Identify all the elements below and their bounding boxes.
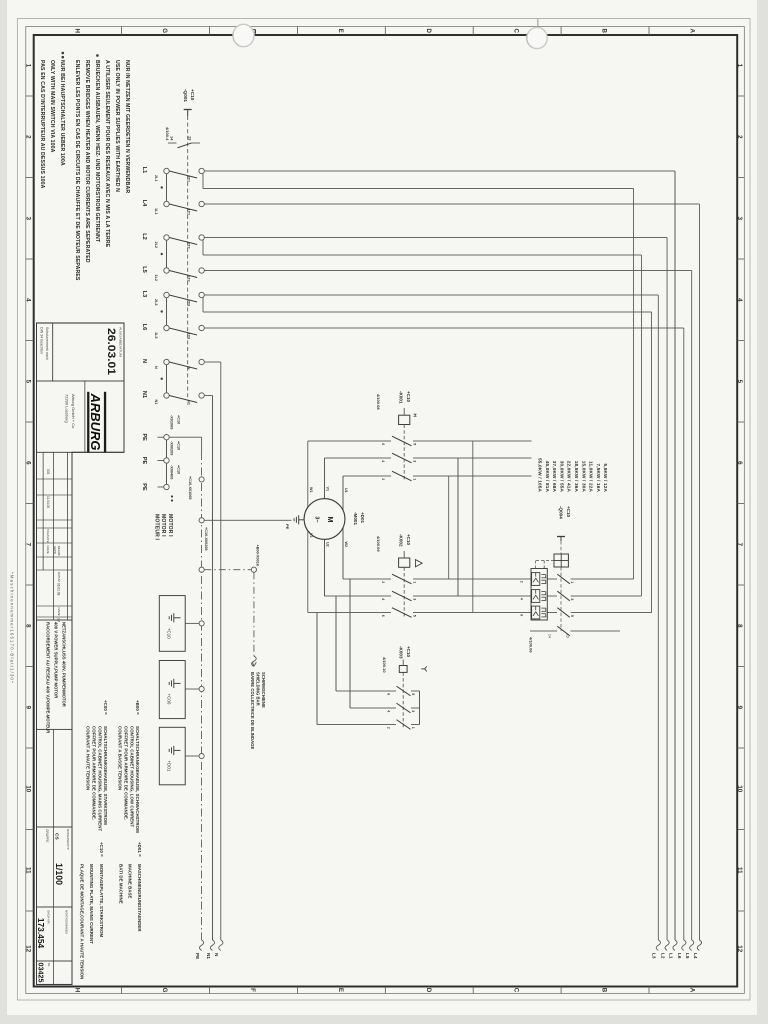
bridge bullet marker 3 xyxy=(161,310,163,312)
main switch Q001 handle xyxy=(184,110,192,117)
svg-text:1L2: 1L2 xyxy=(154,275,158,282)
svg-text:NUR BEI HAUPTSCHALTER UEBER 10: NUR BEI HAUPTSCHALTER UEBER 100A xyxy=(59,60,65,166)
svg-text:C: C xyxy=(513,28,520,33)
svg-text:MASCHINENTYP: MASCHINENTYP xyxy=(66,829,70,850)
svg-text:B: B xyxy=(601,28,608,33)
bridge between input terminals 2 xyxy=(166,240,168,268)
svg-text:PE: PE xyxy=(141,483,147,491)
svg-text:NAME: NAME xyxy=(46,546,50,554)
svg-text:11: 11 xyxy=(736,867,743,874)
svg-text:7,5KW / 16A: 7,5KW / 16A xyxy=(596,464,601,493)
svg-text:B: B xyxy=(601,988,608,993)
svg-text:* M a s c h i n e n n u m m e: * M a s c h i n e n n u m m e r 1 6 5 1 … xyxy=(10,572,15,683)
wire N1 to sheet 2 xyxy=(204,396,214,951)
pole L1 terminal labels xyxy=(154,175,191,182)
column ruler numbers 1-12 bottom edge xyxy=(25,64,32,953)
motor circuit ring middle xyxy=(325,458,459,596)
title block section dividers vertical xyxy=(37,381,125,961)
svg-text:2L3: 2L3 xyxy=(154,299,158,306)
svg-text:4/100.10: 4/100.10 xyxy=(382,657,387,673)
svg-text:CONTROL CABINET HOUSING, MAINS: CONTROL CABINET HOUSING, MAINS CURRENT xyxy=(97,726,102,832)
earth connection box +C00 xyxy=(159,661,204,719)
svg-text:-X00409: -X00409 xyxy=(170,465,174,479)
motor terminal labels left xyxy=(309,487,348,493)
switch pole L6 of Q001 xyxy=(164,325,205,335)
svg-text:13: 13 xyxy=(566,634,570,638)
wire N to sheet 2 xyxy=(204,362,223,950)
svg-text:NUR IN NETZEN MIT GEERDETEN N: NUR IN NETZEN MIT GEERDETEN N VERWENDBAR xyxy=(124,60,130,193)
svg-text:REMOVE BRIDGES WHEN HEATER AND: REMOVE BRIDGES WHEN HEATER AND MOTOR CUR… xyxy=(84,60,90,263)
svg-text:L1: L1 xyxy=(141,167,147,174)
svg-text:1: 1 xyxy=(25,64,32,68)
svg-text:173.454: 173.454 xyxy=(36,918,46,949)
svg-text:400 V POWER SUPPLY,PUMP MOTOR: 400 V POWER SUPPLY,PUMP MOTOR xyxy=(54,622,59,698)
svg-text:N1: N1 xyxy=(187,400,191,405)
svg-text:22,0KW / 41A: 22,0KW / 41A xyxy=(567,461,572,493)
svg-text:Arburg GmbH + Co: Arburg GmbH + Co xyxy=(71,394,76,429)
svg-text:+B00 =: +B00 = xyxy=(135,700,140,715)
title block field issue date 26.03.01 xyxy=(39,323,122,381)
title block middle divider xyxy=(52,729,54,984)
svg-text:-X01069: -X01069 xyxy=(170,415,174,429)
motor circuit ring outer xyxy=(308,441,473,613)
punch hole lower xyxy=(233,24,254,46)
svg-text:D: D xyxy=(425,988,432,993)
legend +C10 mounting plate xyxy=(79,842,104,979)
svg-text:F: F xyxy=(249,988,256,992)
svg-text:10: 10 xyxy=(736,785,743,792)
svg-text:1: 1 xyxy=(411,727,415,729)
svg-text:5: 5 xyxy=(570,615,574,617)
svg-text:2T3: 2T3 xyxy=(187,300,191,307)
svg-text:GEPR: GEPR xyxy=(53,546,57,554)
switch pole L3 of Q001 xyxy=(164,292,205,302)
svg-text:1T1: 1T1 xyxy=(187,209,191,216)
switch pole N1 of Q001 xyxy=(164,393,205,403)
svg-text:4: 4 xyxy=(387,710,391,712)
svg-text:3~: 3~ xyxy=(314,516,320,522)
svg-text:BATI DE MACHINE: BATI DE MACHINE xyxy=(119,864,124,904)
svg-text:9: 9 xyxy=(736,706,743,710)
title block group field 1/100 xyxy=(45,829,70,885)
svg-text:ENLEVER LES PONTS EN CAS DE CI: ENLEVER LES PONTS EN CAS DE CIRCUITS DE … xyxy=(74,60,80,281)
contactor K003 contact 5-6 xyxy=(336,596,415,696)
svg-text:8: 8 xyxy=(25,624,32,628)
svg-text:BARRE COLLECTRICE DE BLINDAGE: BARRE COLLECTRICE DE BLINDAGE xyxy=(250,672,255,749)
svg-text:5,5KW / 12A: 5,5KW / 12A xyxy=(603,464,608,493)
svg-text:2T2: 2T2 xyxy=(187,242,191,249)
pole L3 terminal labels xyxy=(154,299,191,306)
svg-text:10: 10 xyxy=(25,785,32,792)
svg-text:3: 3 xyxy=(25,217,32,221)
title block date and name grid xyxy=(37,452,73,622)
svg-text:N: N xyxy=(187,367,191,370)
note bullet double xyxy=(62,52,65,59)
svg-text:MACHINE BASE: MACHINE BASE xyxy=(127,864,132,899)
svg-text:5: 5 xyxy=(25,380,32,384)
column ruler ticks top edge xyxy=(737,96,744,911)
svg-text:-Q004: -Q004 xyxy=(559,506,564,519)
svg-text:4: 4 xyxy=(25,298,32,302)
svg-text:9: 9 xyxy=(25,706,32,710)
switch pole L1 of Q001 xyxy=(164,168,205,178)
note text: use only with earthed N xyxy=(104,60,130,248)
punch hole upper xyxy=(527,27,548,48)
svg-text:+C10: +C10 xyxy=(406,646,411,658)
svg-text:L2: L2 xyxy=(141,233,147,240)
star symbol xyxy=(421,666,427,671)
motor designator xyxy=(353,512,365,525)
svg-text:3: 3 xyxy=(736,217,743,221)
column ruler numbers 1-12 top edge xyxy=(736,64,743,953)
wire phase L2 to sheet 2 xyxy=(204,238,669,951)
svg-text:-M001: -M001 xyxy=(353,512,358,525)
pole N terminal labels xyxy=(154,366,191,370)
svg-text:3: 3 xyxy=(413,598,417,600)
svg-text:2T1: 2T1 xyxy=(187,176,191,183)
svg-text:1: 1 xyxy=(736,64,743,68)
svg-text:L5: L5 xyxy=(685,953,690,959)
svg-text:L3: L3 xyxy=(141,291,147,298)
svg-text:V1: V1 xyxy=(325,487,329,492)
svg-text:4/100.06: 4/100.06 xyxy=(529,637,534,653)
svg-text:C: C xyxy=(513,988,520,993)
svg-text:06.02.98: 06.02.98 xyxy=(56,583,60,596)
bridge bullet marker 2 xyxy=(161,253,163,255)
contactor K002 contact 1-2 xyxy=(343,574,532,584)
wire phase L4 to sheet 2 xyxy=(204,204,701,950)
fuse block of Q004 xyxy=(531,569,547,621)
svg-text:SCHALTSCHRANKGEHAEUSE, STARKST: SCHALTSCHRANKGEHAEUSE, STARKSTROM xyxy=(103,726,108,825)
switch pole L2 of Q001 xyxy=(164,235,205,245)
svg-text:55,0KW / 105A: 55,0KW / 105A xyxy=(538,458,543,492)
svg-text:SACH-NR.: SACH-NR. xyxy=(47,910,51,925)
svg-text:+C10: +C10 xyxy=(190,89,195,101)
svg-text:-X00209: -X00209 xyxy=(170,441,174,455)
row ruler ticks right edge xyxy=(122,987,649,994)
svg-text:2: 2 xyxy=(387,727,391,729)
svg-text:03425: 03425 xyxy=(36,963,45,983)
svg-text:2L1: 2L1 xyxy=(154,175,158,182)
svg-text:A: A xyxy=(689,28,696,33)
fuse switch Q004 blade 3 xyxy=(520,591,575,601)
svg-text:+C10: +C10 xyxy=(406,391,411,403)
svg-text:+C10: +C10 xyxy=(177,441,181,450)
svg-text:D: D xyxy=(425,28,432,33)
svg-text:USE ONLY IN POWER SUPPLIES WIT: USE ONLY IN POWER SUPPLIES WITH EARTHED … xyxy=(114,60,120,192)
svg-text:U1: U1 xyxy=(344,488,348,493)
earth connection box +C10 xyxy=(159,596,204,652)
bridge bullet marker 1 xyxy=(161,186,163,188)
fuse switch Q004 blade 5 xyxy=(520,608,575,618)
switch pole L4 of Q001 xyxy=(164,201,205,211)
legend +C00 control cabinet mains current xyxy=(86,700,108,832)
svg-text:26.03.01: 26.03.01 xyxy=(105,328,117,375)
svg-text:+C10: +C10 xyxy=(566,506,571,518)
svg-text:BRUECKEN AUSBAUEN, WENN HEIZ-: BRUECKEN AUSBAUEN, WENN HEIZ- UND MOTORS… xyxy=(94,60,100,243)
fuse switch Q004 auxiliary contact 13-14 xyxy=(530,626,620,638)
svg-text:2L2: 2L2 xyxy=(154,242,158,249)
svg-text:TAG/DATE: TAG/DATE xyxy=(46,529,50,543)
contactor K001 contact 5-6 xyxy=(308,436,532,446)
pole L6 terminal labels xyxy=(154,332,191,339)
motor earth symbol xyxy=(294,515,304,524)
svg-text:N1: N1 xyxy=(206,953,211,959)
svg-text:CS: CS xyxy=(54,833,60,840)
svg-text:8: 8 xyxy=(736,624,743,628)
svg-text:GRUPPE: GRUPPE xyxy=(45,829,49,842)
main switch Q001 designator xyxy=(183,89,195,102)
svg-text:1T3: 1T3 xyxy=(187,333,191,340)
contactor K001 designator xyxy=(399,391,412,404)
svg-text:U2: U2 xyxy=(325,542,329,547)
svg-text:6: 6 xyxy=(25,461,32,465)
svg-text:PE: PE xyxy=(195,953,200,959)
svg-text:H: H xyxy=(73,28,80,33)
bridge between input terminals 3 xyxy=(166,298,168,326)
svg-text:NAME: NAME xyxy=(57,608,61,616)
svg-text:DIN 34 beachten: DIN 34 beachten xyxy=(39,327,43,354)
terminal label X01069 xyxy=(170,415,181,429)
svg-text:+D01: +D01 xyxy=(360,512,365,524)
svg-text:7: 7 xyxy=(736,543,743,547)
svg-text:-K001: -K001 xyxy=(399,391,404,404)
svg-text:RL: RL xyxy=(47,963,51,967)
svg-text:4/100.08: 4/100.08 xyxy=(376,394,381,410)
svg-text:PE: PE xyxy=(141,433,147,441)
svg-text:6: 6 xyxy=(520,614,524,616)
title block drawing title text xyxy=(45,622,66,733)
svg-text:V2: V2 xyxy=(309,533,313,538)
svg-text:11,0KW / 22A: 11,0KW / 22A xyxy=(589,461,594,492)
svg-text:11.04.00: 11.04.00 xyxy=(46,496,50,508)
svg-text:5: 5 xyxy=(736,380,743,384)
row ruler ticks left edge xyxy=(122,27,649,36)
svg-text:H: H xyxy=(73,988,80,993)
wire phase L5 to sheet 2 xyxy=(204,271,694,951)
svg-text:SCHIRMSCHIENE: SCHIRMSCHIENE xyxy=(261,672,266,708)
contactor K002 designator xyxy=(399,534,412,547)
contactor K001 linkage dashed xyxy=(403,425,405,482)
svg-text:L6: L6 xyxy=(677,953,682,959)
svg-text:2: 2 xyxy=(381,581,385,583)
PE junction to shield bar xyxy=(199,567,204,572)
motor terminal labels right xyxy=(309,533,348,547)
svg-text:COURANT A HAUTE TENSION: COURANT A HAUTE TENSION xyxy=(86,726,91,790)
contactor K002 contact 3-4 xyxy=(325,591,532,601)
svg-text:+C00: +C00 xyxy=(167,694,172,705)
svg-text:+C10 =: +C10 = xyxy=(99,842,104,857)
PE junction to motor xyxy=(199,518,204,523)
svg-text:003: 003 xyxy=(46,469,50,475)
svg-text:37,0KW / 68A: 37,0KW / 68A xyxy=(552,461,557,493)
branch wire to fuse Q004 phase 1 xyxy=(203,173,634,579)
svg-text:MOTEUR I: MOTEUR I xyxy=(154,514,160,541)
svg-text:1L3: 1L3 xyxy=(154,332,158,339)
fuse switch Q004 designator xyxy=(559,506,572,519)
column ruler ticks bottom edge xyxy=(26,96,34,911)
svg-text:+D01 =: +D01 = xyxy=(137,842,142,857)
svg-text:5: 5 xyxy=(413,443,417,445)
contactor K001 contact 1-2 xyxy=(343,471,532,481)
svg-text:PLAQUE DE MONTAGE,COURANT A HA: PLAQUE DE MONTAGE,COURANT A HAUTE TENSIO… xyxy=(79,864,84,979)
svg-text:NETZANSCHLUSS 400V, PUMPENMOTO: NETZANSCHLUSS 400V, PUMPENMOTOR xyxy=(62,622,67,707)
svg-text:11: 11 xyxy=(25,867,32,874)
svg-text:A: A xyxy=(689,988,696,993)
svg-text:1: 1 xyxy=(413,478,417,480)
switch pole L5 of Q001 xyxy=(164,268,205,278)
terminal label X00409 xyxy=(170,465,181,502)
title block part number field 173.454 xyxy=(36,910,69,948)
svg-text:MASCHINENGRUNDSTAENDER: MASCHINENGRUNDSTAENDER xyxy=(137,864,142,932)
bridge between input terminals 1 xyxy=(166,174,168,202)
contactor K002 contact 5-6 xyxy=(308,608,532,618)
fuse switch Q004 blade 1 xyxy=(520,574,575,584)
PE labels xyxy=(141,433,147,491)
svg-text:A UTILISER SEULEMENT POUR DES: A UTILISER SEULEMENT POUR DES RESEAUX AV… xyxy=(104,60,110,248)
svg-text:-K002: -K002 xyxy=(399,534,404,547)
ARBURG logo xyxy=(64,381,106,452)
svg-text:4/100.09: 4/100.09 xyxy=(376,536,381,552)
svg-text:-K003: -K003 xyxy=(399,646,404,659)
svg-text:W1: W1 xyxy=(309,487,313,493)
svg-text:PE: PE xyxy=(141,457,147,465)
contactor K003 linkage dashed xyxy=(402,672,404,729)
branch wire to fuse Q004 phase 3 xyxy=(203,297,652,612)
legend +B00 control cabinet low current xyxy=(118,700,140,833)
svg-text:COFFRET POUR ARMOIRE DE COMMAN: COFFRET POUR ARMOIRE DE COMMANDE. xyxy=(92,726,97,820)
svg-text:1: 1 xyxy=(413,581,417,583)
PE terminals of Q001 xyxy=(158,435,170,490)
svg-text:+C10: +C10 xyxy=(177,415,181,424)
bridge between input terminals 4 xyxy=(166,365,168,393)
svg-text:+B00-X0016: +B00-X0016 xyxy=(256,545,260,566)
svg-text:L5: L5 xyxy=(141,266,147,273)
main switch Q001 linkage dashed xyxy=(187,116,189,400)
svg-text:+C10: +C10 xyxy=(177,465,181,474)
contactor K002 linkage dashed xyxy=(403,567,405,617)
svg-text:7: 7 xyxy=(25,543,32,547)
svg-text:MONTAGEPLATTE, STARKSTROM: MONTAGEPLATTE, STARKSTROM xyxy=(99,864,104,937)
motor M001 circle xyxy=(304,499,345,540)
delta symbol xyxy=(415,560,422,567)
svg-text:1/100: 1/100 xyxy=(54,863,64,885)
svg-text:4: 4 xyxy=(520,598,524,600)
contactor K002 coil xyxy=(399,551,410,567)
main switch Q001 auxiliary contact 13-14 xyxy=(168,136,200,148)
PE bus wire xyxy=(169,437,203,950)
motor circuit ring inner xyxy=(343,476,449,579)
wire phase L6 to sheet 2 xyxy=(204,328,686,950)
svg-text:2: 2 xyxy=(25,135,32,139)
svg-text:72290 Lossburg: 72290 Lossburg xyxy=(64,394,69,423)
registration tick left margin xyxy=(537,19,539,27)
row ruler letters A-H right edge xyxy=(73,988,695,993)
svg-text:MOUNTING PLATE, MAINS CURRENT: MOUNTING PLATE, MAINS CURRENT xyxy=(89,864,94,944)
row ruler letters A-H left edge xyxy=(73,28,695,33)
svg-text:L1: L1 xyxy=(668,953,673,959)
pole N1 terminal labels xyxy=(154,400,191,405)
svg-text:ARBURG: ARBURG xyxy=(88,393,103,451)
PE wire to motor xyxy=(204,519,291,521)
svg-text:45,0KW / 81A: 45,0KW / 81A xyxy=(545,461,550,493)
svg-text:13: 13 xyxy=(188,136,193,141)
scan artifact near punch hole xyxy=(252,30,255,34)
pole L4 terminal labels xyxy=(154,208,191,215)
svg-text:2: 2 xyxy=(381,478,385,480)
star point bridge xyxy=(411,691,420,725)
svg-text:4: 4 xyxy=(381,598,385,600)
svg-text:15,0KW / 30A: 15,0KW / 30A xyxy=(581,461,586,493)
svg-text:3: 3 xyxy=(411,710,415,712)
svg-text:4: 4 xyxy=(381,460,385,462)
svg-text:3: 3 xyxy=(413,460,417,462)
svg-text:1L1: 1L1 xyxy=(154,208,158,215)
pole L2 terminal labels xyxy=(154,242,191,249)
svg-text:L6: L6 xyxy=(141,324,147,331)
svg-text:PE: PE xyxy=(285,524,290,530)
svg-text:N: N xyxy=(154,366,158,369)
wire phase L3 to sheet 2 xyxy=(204,295,660,950)
title block revision field 03425 xyxy=(36,963,51,983)
fuse switch Q004 drive box xyxy=(554,541,568,567)
svg-text:L4: L4 xyxy=(693,953,698,959)
note bullet single xyxy=(96,54,99,57)
svg-text:6: 6 xyxy=(387,693,391,695)
svg-text:G: G xyxy=(161,988,168,993)
contactor K003 designator xyxy=(399,646,412,659)
svg-text:COFFRET POUR ARMOIRE DE COMMAN: COFFRET POUR ARMOIRE DE COMMANDE. xyxy=(124,726,129,820)
title block outline xyxy=(37,323,125,985)
contactor K003 coil xyxy=(399,660,407,673)
svg-text:+C10-X01069: +C10-X01069 xyxy=(188,476,192,500)
svg-text:12: 12 xyxy=(25,945,32,952)
svg-text:SHIELDING BAR: SHIELDING BAR xyxy=(255,672,260,706)
fuse switch Q004 handle xyxy=(557,537,565,542)
pole L5 terminal labels xyxy=(154,275,191,282)
svg-text:4: 4 xyxy=(736,298,743,302)
svg-text:CONTROL CABINET HOUSING, LOW C: CONTROL CABINET HOUSING, LOW CURRENT xyxy=(129,726,134,828)
svg-text:MONTAGEHINWEIS: MONTAGEHINWEIS xyxy=(65,910,69,934)
bridge bullet marker 4 xyxy=(161,378,163,380)
svg-text:2: 2 xyxy=(736,135,743,139)
svg-text:N: N xyxy=(141,359,147,363)
svg-text:+C10-X00269: +C10-X00269 xyxy=(204,527,208,551)
svg-text:RACCORDEMENT AU RESEAU 400 V,P: RACCORDEMENT AU RESEAU 400 V,POMPE-MOTEU… xyxy=(45,622,50,733)
svg-text:PAS EN CAS D'INTERRUPTEUR AU D: PAS EN CAS D'INTERRUPTEUR AU DESSUS 100A xyxy=(39,60,45,189)
note text: remove bridges xyxy=(74,60,100,281)
branch wire to fuse Q004 phase 2 xyxy=(203,240,641,596)
legend +D01 machine base xyxy=(119,842,142,932)
svg-text:E: E xyxy=(337,988,344,992)
svg-text:14: 14 xyxy=(548,634,552,638)
wire to shielding bar xyxy=(204,567,256,666)
svg-text:1T2: 1T2 xyxy=(187,275,191,282)
svg-text:W2: W2 xyxy=(344,542,348,548)
svg-text:-Q001: -Q001 xyxy=(183,89,188,102)
svg-text:L2: L2 xyxy=(661,953,666,959)
svg-text:12: 12 xyxy=(736,945,743,952)
contactor K001 contact 3-4 xyxy=(325,453,532,463)
svg-text:SCHALTSCHRANKGEHAEUSE, SCHWACH: SCHALTSCHRANKGEHAEUSE, SCHWACHSTROM xyxy=(135,726,140,833)
svg-text:+D01: +D01 xyxy=(167,761,172,772)
svg-text:E: E xyxy=(337,29,344,33)
svg-text:COURANT A BASSE TENSION: COURANT A BASSE TENSION xyxy=(118,726,123,790)
svg-text:6: 6 xyxy=(381,443,385,445)
svg-text:+C00 =: +C00 = xyxy=(103,700,108,715)
svg-text:2: 2 xyxy=(520,581,524,583)
svg-text:1: 1 xyxy=(570,581,574,583)
